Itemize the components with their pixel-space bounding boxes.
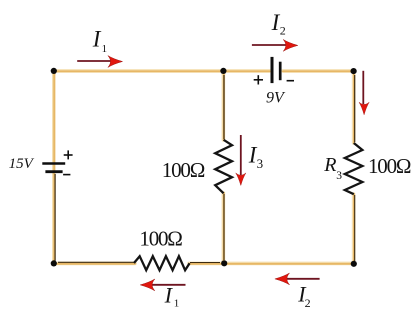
svg-text:100Ω: 100Ω: [162, 158, 205, 182]
resistor bottom 100ohm zigzag: [134, 256, 190, 270]
svg-text:2: 2: [280, 23, 286, 37]
wire right vertical upper stub: [352, 71, 356, 143]
dark lead line middle wire above resistor: [223, 75, 225, 139]
node bottom-right: [351, 261, 357, 267]
dark lead line on left wire below 15V battery: [54, 174, 56, 261]
dark lead line middle wire below resistor: [223, 194, 225, 260]
wire top (left node to 9V battery): [54, 69, 270, 73]
battery 15V plates: [42, 164, 65, 172]
svg-text:1: 1: [174, 298, 180, 310]
current arrow I2 bottom (left-pointing): [275, 273, 320, 285]
svg-text:100Ω: 100Ω: [368, 154, 411, 178]
node top-right: [351, 68, 357, 74]
wire bottom left (node to bottom resistor): [54, 262, 135, 266]
wire top (9V battery to top-right node): [283, 69, 354, 73]
battery 9V minus sign: [287, 80, 294, 82]
svg-text:9V: 9V: [266, 90, 286, 107]
battery 9V plates: [272, 57, 280, 83]
dark lead line right wire below resistor: [354, 195, 356, 261]
battery 9V plus sign: [254, 75, 263, 84]
resistor middle 100ohm zigzag: [215, 140, 232, 194]
current arrow right branch (down-pointing): [359, 71, 369, 115]
wire bottom right (bottom resistor to bottom-right node): [189, 262, 354, 266]
resistor R3 right zigzag: [345, 143, 363, 194]
svg-text:1: 1: [102, 43, 108, 55]
current arrow I2 top (right-pointing): [252, 40, 298, 52]
wire right vertical lower stub: [352, 194, 356, 264]
svg-text:R: R: [323, 154, 336, 176]
wire left vertical (through 15V battery): [52, 71, 56, 264]
wire middle vertical upper stub: [222, 71, 226, 140]
battery 15V minus sign: [63, 174, 70, 176]
node bottom-left: [51, 260, 57, 266]
node top-middle: [220, 68, 226, 74]
svg-text:3: 3: [257, 156, 264, 171]
current arrow I1 top (right-pointing): [77, 56, 122, 68]
svg-text:15V: 15V: [9, 156, 35, 172]
dark lead line bottom wire right of resistor: [190, 262, 220, 264]
node bottom-middle: [221, 260, 227, 266]
current arrow I1 bottom (left-pointing): [140, 279, 185, 291]
dark lead line bottom wire left of resistor: [58, 261, 134, 263]
svg-text:2: 2: [305, 296, 311, 310]
wire middle vertical lower stub: [222, 193, 226, 263]
svg-text:3: 3: [336, 170, 342, 182]
dark lead line right wire above resistor: [354, 75, 356, 142]
svg-text:100Ω: 100Ω: [139, 226, 182, 250]
current arrow I3 middle (down-pointing): [236, 135, 246, 186]
node top-left: [51, 68, 57, 74]
battery 15V plus sign: [64, 150, 73, 159]
svg-text:I: I: [92, 27, 102, 52]
